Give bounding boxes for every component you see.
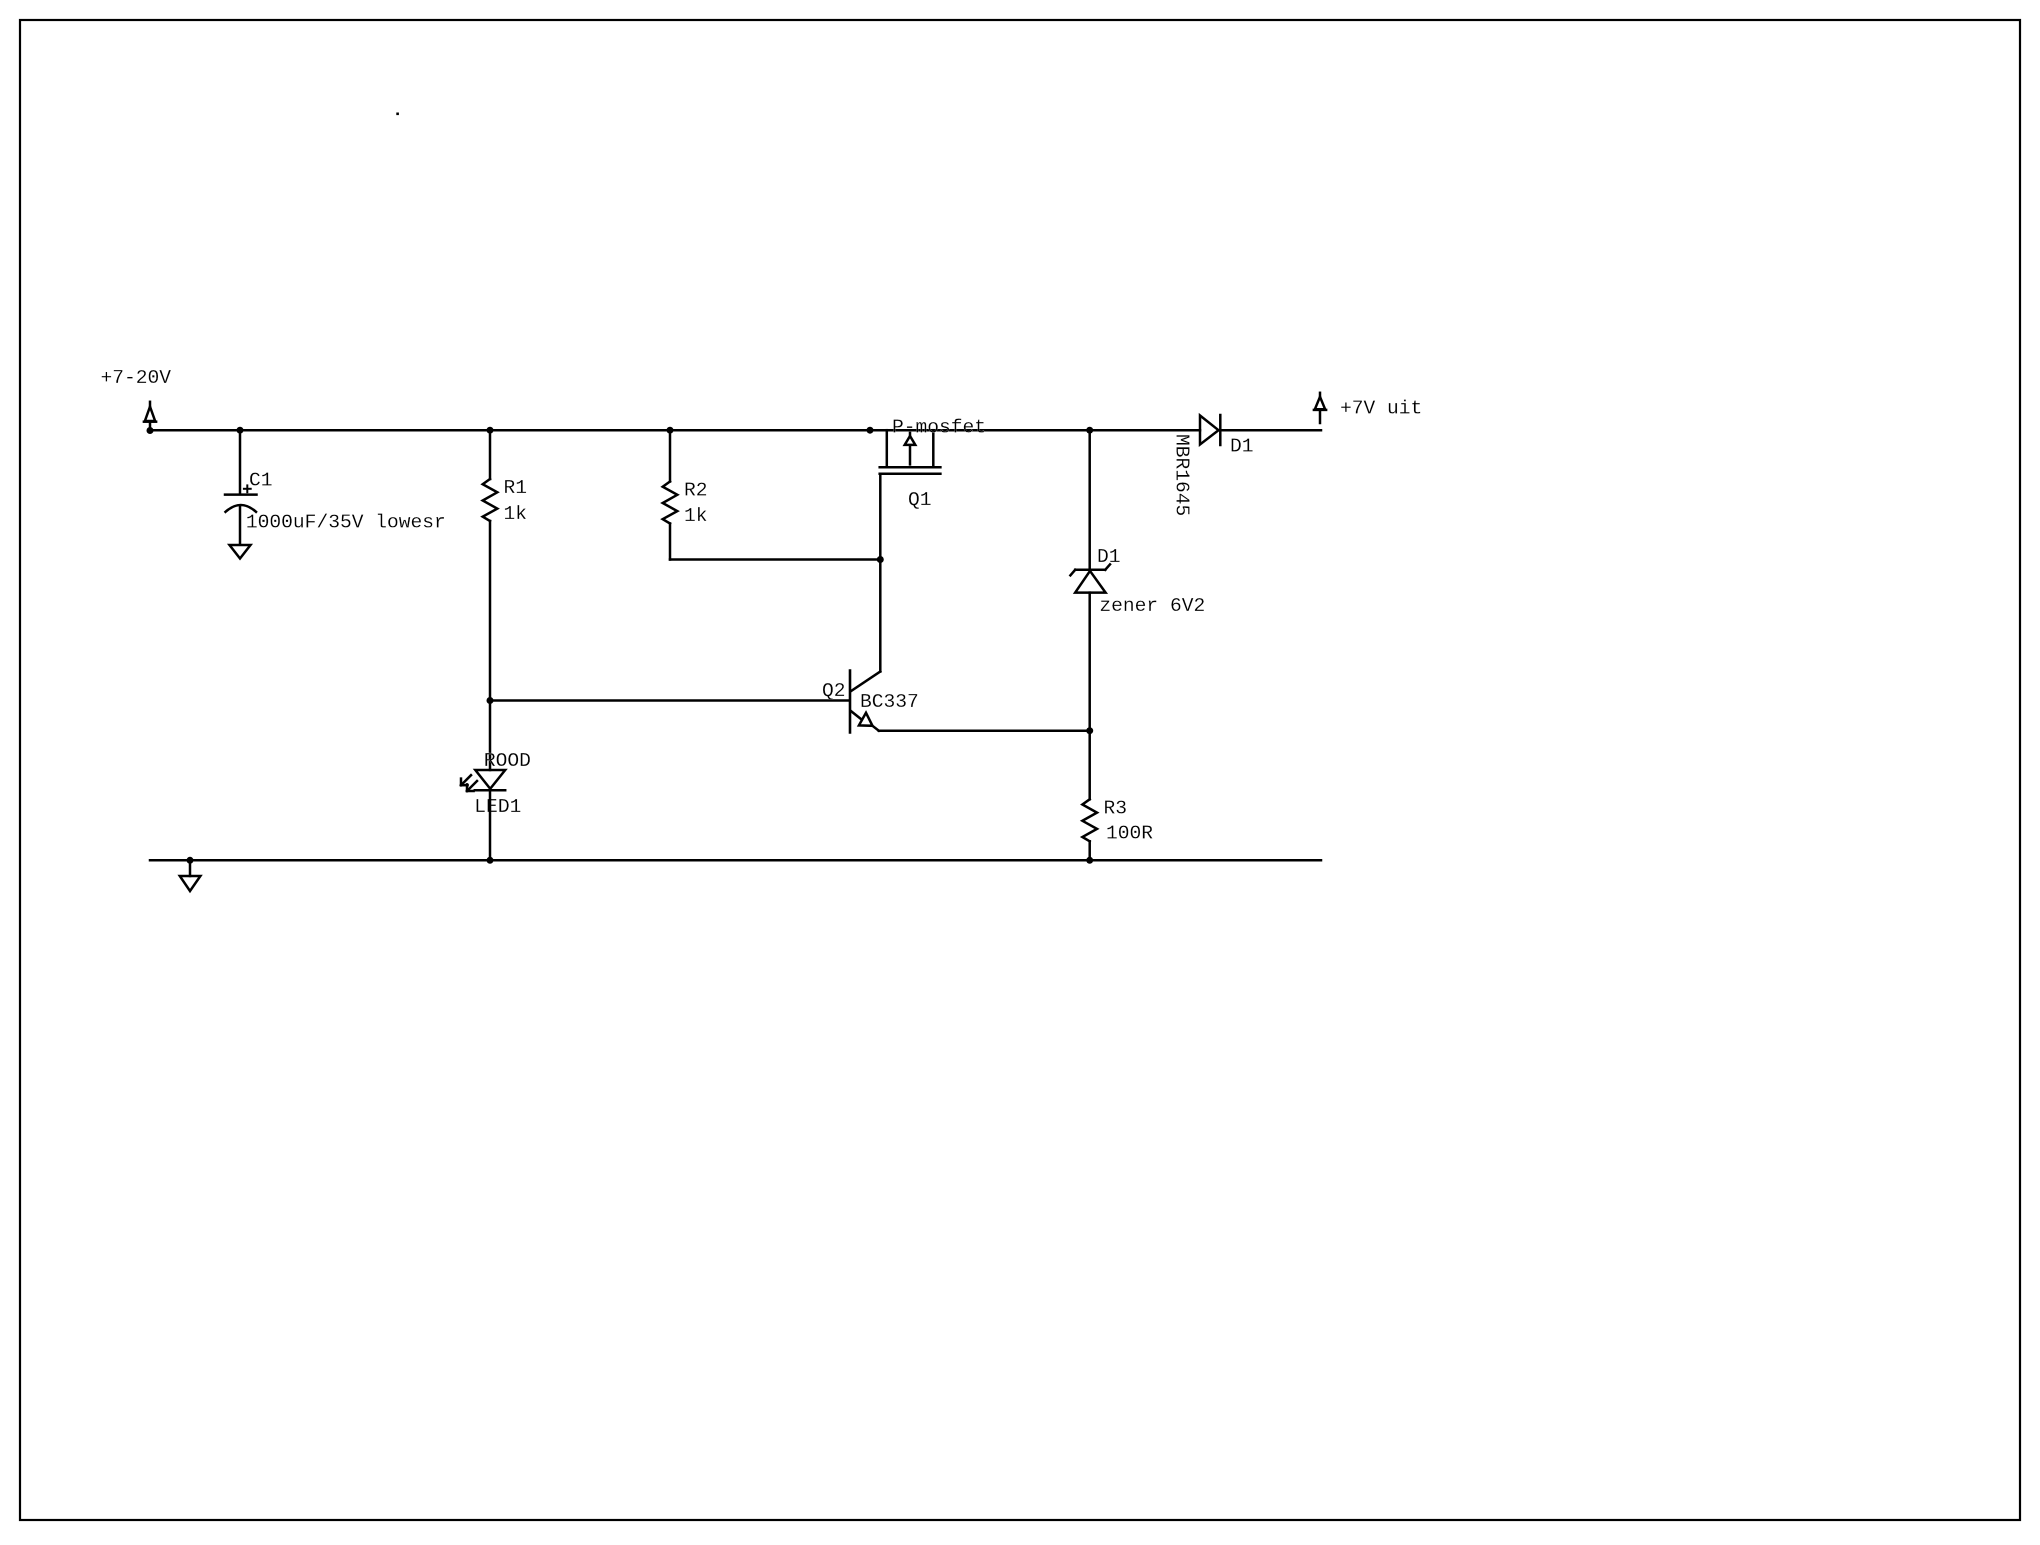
resistor R1 [483, 479, 498, 521]
wire C1 top lead [239, 430, 242, 494]
svg-text:+7V uit: +7V uit [1340, 398, 1422, 420]
svg-text:D1: D1 [1230, 435, 1254, 457]
wire R2 to gate node [670, 558, 880, 561]
resistor R2 [663, 482, 678, 524]
node R2 top junction [667, 427, 674, 434]
node input +7-20V junction [147, 427, 154, 434]
svg-text:1000uF/35V lowesr: 1000uF/35V lowesr [246, 511, 446, 533]
supply arrow +7-20V [144, 402, 156, 430]
wire diode cathode to output [1220, 429, 1321, 432]
wire bottom ground rail [150, 859, 1321, 862]
wire LED1 cathode to ground rail [489, 790, 492, 860]
node mosfet source junction [867, 427, 874, 434]
node emitter junction [1086, 727, 1093, 734]
svg-text:R3: R3 [1104, 797, 1128, 819]
transistor Q1 P-mosfet [880, 430, 941, 474]
ground under C1 [230, 545, 251, 559]
wire gate/collector vertical [879, 474, 882, 672]
node C1 top junction [237, 427, 244, 434]
svg-text:R2: R2 [684, 480, 708, 502]
node base junction [487, 697, 494, 704]
svg-text:+7-20V: +7-20V [101, 367, 172, 389]
svg-text:100R: 100R [1106, 823, 1153, 845]
svg-text:D1: D1 [1097, 546, 1121, 568]
svg-text:MBR1645: MBR1645 [1171, 434, 1193, 516]
svg-text:zener 6V2: zener 6V2 [1099, 595, 1205, 617]
resistor R3 [1082, 799, 1097, 841]
wire R2 bottom lead [669, 524, 672, 560]
wire zener anode to emitter node [1088, 593, 1091, 731]
wire C1 bottom lead [239, 506, 242, 545]
wire R3 leads [1088, 731, 1091, 800]
transistor Q2 BC337 [850, 671, 880, 733]
svg-text:R1: R1 [504, 477, 528, 499]
node gate junction [877, 556, 884, 563]
svg-text:BC337: BC337 [860, 691, 919, 713]
svg-text:P-mosfet: P-mosfet [892, 416, 986, 438]
ground symbol bottom left [180, 860, 201, 891]
supply arrow +7V uit [1314, 393, 1326, 423]
node LED1 bottom junction [487, 857, 494, 864]
node ground rail junction [187, 857, 194, 864]
node R3 bottom junction [1086, 857, 1093, 864]
wire R1 bottom to base node [489, 521, 492, 701]
svg-text:LED1: LED1 [474, 796, 521, 818]
capacitor C1 [225, 485, 257, 511]
node R1 top junction [487, 427, 494, 434]
wire zener top lead [1088, 430, 1091, 570]
stray dot [396, 113, 399, 116]
wire R1 top lead [489, 430, 492, 479]
wire R2 top lead [669, 430, 672, 481]
svg-text:Q2: Q2 [822, 680, 846, 702]
svg-text:ROOD: ROOD [484, 750, 531, 772]
svg-text:C1: C1 [249, 470, 273, 492]
diode D1 zener 6V2 [1070, 564, 1110, 592]
diode D1 MBR1645 [1200, 415, 1220, 445]
LED LED1 [461, 770, 505, 791]
svg-text:1k: 1k [684, 505, 708, 527]
node zener top junction [1086, 427, 1093, 434]
wire base of Q2 [490, 699, 849, 702]
svg-text:Q1: Q1 [908, 489, 932, 511]
wire Q2 emitter to R3 node [879, 729, 1090, 732]
wire R1 node to LED1 [489, 701, 492, 771]
svg-text:1k: 1k [504, 503, 528, 525]
wire top rail +7-20V from input to diode D1 anode [150, 429, 1200, 432]
